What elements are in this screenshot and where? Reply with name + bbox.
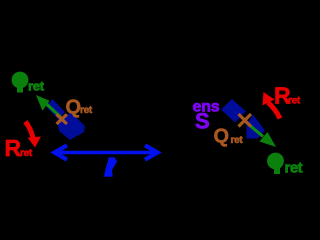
svg-text:ret: ret <box>231 135 244 146</box>
svg-text:S: S <box>195 109 210 134</box>
svg-text:ret: ret <box>285 160 303 177</box>
svg-text:ret: ret <box>80 105 93 116</box>
svg-text:Q: Q <box>66 97 82 119</box>
svg-text:ret: ret <box>20 148 33 159</box>
svg-text:R: R <box>5 135 22 161</box>
svg-text:ret: ret <box>288 96 301 107</box>
svg-text:ret: ret <box>28 79 45 94</box>
svg-text:Q: Q <box>214 126 230 148</box>
